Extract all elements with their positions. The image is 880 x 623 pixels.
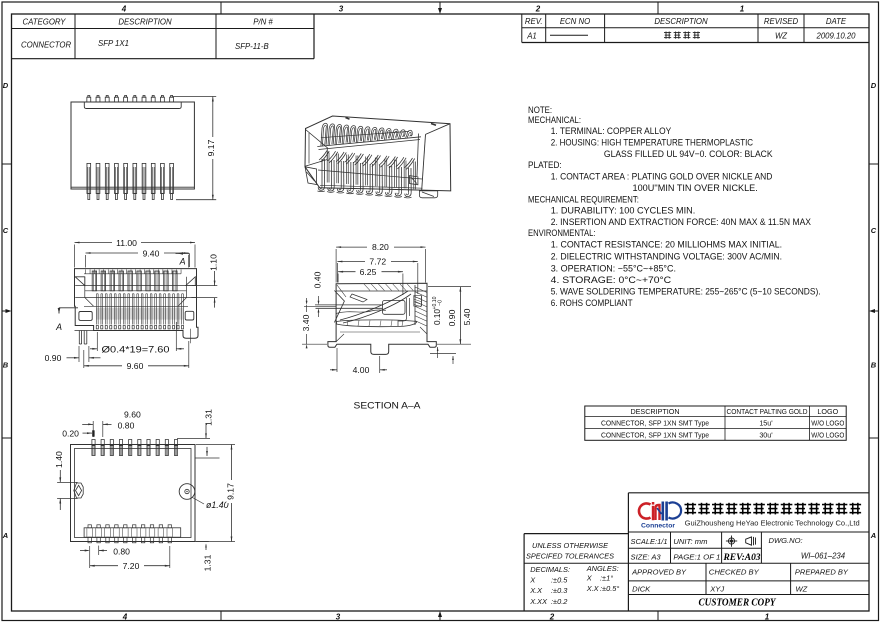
svg-text:0.90: 0.90: [447, 309, 457, 326]
dimension 1.10: [192, 285, 217, 287]
revision table: [521, 14, 523, 43]
bottom view comb band: [84, 528, 181, 537]
svg-text:0.10: 0.10: [433, 309, 442, 325]
svg-text:6. ROHS COMPLIANT: 6. ROHS COMPLIANT: [551, 298, 633, 308]
svg-text:WZ: WZ: [775, 31, 787, 40]
isometric top face marks: [346, 118, 350, 120]
svg-text:8.20: 8.20: [372, 242, 389, 252]
bottom view top pins: [92, 440, 95, 446]
svg-text:W/O LOGO: W/O LOGO: [811, 431, 844, 440]
svg-text:ECN NO: ECN NO: [560, 17, 590, 26]
svg-text:2: 2: [535, 4, 541, 13]
svg-text:MECHANICAL REQUIREMENT:: MECHANICAL REQUIREMENT:: [528, 195, 639, 205]
svg-text:B: B: [871, 361, 877, 370]
section right hatch block: [414, 285, 416, 325]
category table: [12, 28, 315, 30]
svg-text:2: 2: [549, 613, 555, 622]
svg-text:2. HOUSING: HIGH TEMPERATURE T: 2. HOUSING: HIGH TEMPERATURE THERMOPLAST…: [551, 137, 754, 147]
svg-text:CUSTOMER COPY: CUSTOMER COPY: [699, 598, 777, 609]
dimension 3.40: [306, 298, 308, 301]
dimension 9.17 bottom view: [196, 444, 235, 446]
svg-text:SIZE: A3: SIZE: A3: [631, 553, 662, 562]
svg-text:100U''MIN TIN OVER NICKLE.: 100U''MIN TIN OVER NICKLE.: [633, 183, 758, 193]
svg-text:2009.10.20: 2009.10.20: [815, 31, 856, 40]
ecn dash: [550, 34, 588, 36]
top view right block: [185, 311, 194, 320]
top view lower smt pins shading: [96, 308, 183, 320]
svg-text:11.00: 11.00: [116, 238, 137, 248]
svg-text:A: A: [179, 257, 186, 267]
isometric mouth opening: [305, 130, 327, 167]
isometric right foot: [419, 191, 437, 198]
svg-text:0.20: 0.20: [62, 429, 79, 439]
svg-text:A: A: [2, 531, 8, 540]
isometric legs: [321, 159, 323, 186]
dimension 4.00: [336, 348, 338, 372]
svg-text:1. TERMINAL: COPPER ALLOY: 1. TERMINAL: COPPER ALLOY: [551, 126, 672, 136]
bottom view body: [71, 445, 196, 542]
isometric top front edge: [317, 137, 421, 147]
top view upper comb: [85, 269, 87, 273]
svg-text:W/O LOGO: W/O LOGO: [811, 419, 844, 428]
svg-text:3. OPERATION: −55°C~+85°C.: 3. OPERATION: −55°C~+85°C.: [551, 263, 676, 273]
svg-text::±0.5°: :±0.5°: [600, 584, 619, 593]
svg-text:CHECKED BY: CHECKED BY: [709, 568, 760, 577]
svg-text:0.80: 0.80: [118, 420, 135, 430]
svg-text:7.72: 7.72: [369, 257, 386, 267]
svg-text:A: A: [870, 531, 876, 540]
svg-text:9.60: 9.60: [124, 409, 141, 419]
title block frame: [627, 493, 629, 611]
svg-text:4: 4: [121, 4, 127, 13]
svg-text:SECTION A–A: SECTION A–A: [354, 399, 422, 410]
svg-text:Ø0.4*19=7.60: Ø0.4*19=7.60: [102, 344, 170, 354]
svg-text:1: 1: [765, 613, 770, 622]
svg-text:Connector: Connector: [641, 523, 675, 530]
svg-text:CONNECTOR: CONNECTOR: [21, 41, 71, 50]
svg-text:DWG.NO:: DWG.NO:: [769, 536, 803, 545]
section mouth: [334, 291, 344, 323]
dimension 7.72: [336, 263, 338, 283]
rev description CJK 新訂圓面: [664, 32, 671, 39]
dimension 7.20: [89, 546, 91, 568]
section bottom leaf: [337, 320, 417, 327]
svg-text:1: 1: [740, 4, 745, 13]
svg-text:0.90: 0.90: [45, 353, 62, 363]
svg-text:P/N #: P/N #: [253, 17, 273, 26]
svg-text:LOGO: LOGO: [817, 407, 838, 416]
section top hatch band: [336, 290, 427, 292]
dimension 0.80 bottom: [80, 550, 89, 552]
svg-text:4: 4: [122, 613, 128, 622]
svg-text:DECIMALS:: DECIMALS:: [530, 565, 570, 574]
svg-text:DESCRIPTION: DESCRIPTION: [654, 17, 708, 26]
dimension 9.17 front view: [173, 96, 216, 98]
svg-text:SPECIFED TOLERANCES: SPECIFED TOLERANCES: [526, 552, 614, 561]
svg-text:GuiZhousheng HeYao Electronic: GuiZhousheng HeYao Electronic Technology…: [685, 519, 860, 528]
dimension 0.80 top: [92, 421, 94, 437]
isometric lower face edge: [318, 170, 422, 179]
svg-text:4.00: 4.00: [353, 365, 370, 375]
dimension 9.60 top view: [83, 350, 85, 368]
svg-text:PREPARED BY: PREPARED BY: [795, 568, 849, 577]
svg-text:15u': 15u': [759, 419, 773, 428]
svg-text:CATEGORY: CATEGORY: [23, 17, 67, 26]
top view right foot centerline: [190, 329, 192, 344]
tolerance box: [523, 534, 525, 611]
svg-text:DICK: DICK: [632, 584, 651, 593]
svg-text:XYJ: XYJ: [709, 584, 724, 593]
svg-text:GLASS FILLED UL 94V−0. COLOR:: GLASS FILLED UL 94V−0. COLOR: BLACK: [604, 149, 774, 159]
svg-text::±0.5: :±0.5: [551, 575, 568, 584]
svg-text:3: 3: [336, 613, 341, 622]
svg-text:SCALE:1/1: SCALE:1/1: [631, 537, 668, 546]
svg-text:7.20: 7.20: [123, 561, 140, 571]
svg-text:REV.: REV.: [525, 17, 543, 26]
svg-text:X.X: X.X: [586, 584, 600, 593]
dimension 1.31 bottom right: [172, 541, 209, 543]
svg-text:B: B: [3, 361, 9, 370]
svg-text:DESCRIPTION: DESCRIPTION: [630, 407, 679, 416]
svg-text:9.17: 9.17: [206, 139, 216, 156]
svg-text:CONNECTOR, SFP 1XN SMT Type: CONNECTOR, SFP 1XN SMT Type: [601, 419, 709, 428]
svg-text:0.40: 0.40: [312, 271, 322, 288]
svg-text:WZ: WZ: [796, 584, 808, 593]
svg-text::±0.2: :±0.2: [551, 597, 567, 606]
svg-text:DATE: DATE: [826, 17, 847, 26]
dimension 6.25: [337, 274, 339, 283]
svg-text:−0: −0: [438, 300, 444, 306]
section spring contact curves: [340, 291, 408, 320]
svg-text:DESCRIPTION: DESCRIPTION: [118, 17, 172, 26]
zone tick marks: [220, 2, 222, 14]
isometric side latch hole: [410, 176, 418, 185]
isometric right face edges: [426, 124, 451, 135]
svg-text:ENVIRONMENTAL:: ENVIRONMENTAL:: [528, 228, 596, 238]
dimension 11.00: [74, 245, 76, 268]
svg-text:1. DURABILITY: 100 CYCLES MIN.: 1. DURABILITY: 100 CYCLES MIN.: [551, 206, 696, 216]
svg-text:X.XX: X.XX: [529, 597, 548, 606]
svg-text:PAGE:1 OF 1: PAGE:1 OF 1: [673, 553, 720, 562]
company logo mark: [639, 502, 681, 521]
svg-text:9.60: 9.60: [127, 361, 144, 371]
svg-text:ANGLES:: ANGLES:: [586, 564, 619, 573]
svg-text:SFP-11-B: SFP-11-B: [235, 42, 269, 51]
dimension diameter 1.40: [193, 498, 205, 505]
svg-text:0.80: 0.80: [113, 546, 130, 556]
top view big pins row: [92, 271, 96, 291]
section contact blade: [315, 304, 383, 306]
top view chamfer corners: [75, 277, 85, 286]
svg-text:9.17: 9.17: [225, 483, 235, 500]
bottom view circle hole: [179, 484, 195, 500]
top view body outline: [75, 269, 199, 339]
svg-text:2. DIELECTRIC WITHSTANDING VOL: 2. DIELECTRIC WITHSTANDING VOLTAGE: 300V…: [551, 252, 782, 262]
section arrow A left: [59, 307, 78, 309]
dimension 1.31 top right: [177, 437, 210, 439]
svg-text:D: D: [3, 81, 9, 90]
plating spec table: [585, 406, 846, 440]
svg-text:UNLESS OTHERWISE: UNLESS OTHERWISE: [532, 541, 609, 550]
svg-text:1. CONTACT RESISTANCE: 20 MILL: 1. CONTACT RESISTANCE: 20 MILLIOHMS MAX …: [551, 240, 782, 250]
svg-text:A: A: [55, 322, 62, 332]
isometric back row legs: [326, 153, 328, 183]
svg-text:C: C: [871, 226, 877, 235]
isometric left foot: [305, 167, 317, 185]
dimension 9.40: [85, 255, 87, 268]
svg-text:5. WAVE SOLDERING TEMPERATURE:: 5. WAVE SOLDERING TEMPERATURE: 255~265°C…: [551, 287, 821, 297]
dimension 0.4x19: [96, 332, 98, 351]
svg-text:3: 3: [339, 4, 344, 13]
svg-text:X.X: X.X: [529, 586, 543, 595]
top view left legs: [78, 331, 80, 345]
svg-text::±0.3: :±0.3: [551, 586, 568, 595]
svg-text:3.40: 3.40: [301, 314, 311, 331]
bottom view hex hole: [74, 483, 83, 498]
svg-text:1.31: 1.31: [202, 554, 212, 571]
svg-text:REV:A03: REV:A03: [722, 552, 761, 562]
isometric view outline: [305, 116, 451, 191]
svg-text:CONNECTOR, SFP 1XN SMT Type: CONNECTOR, SFP 1XN SMT Type: [601, 431, 709, 440]
isometric top contact fingers: [321, 123, 328, 146]
svg-text:6.25: 6.25: [360, 267, 377, 277]
svg-text:9.40: 9.40: [143, 248, 160, 258]
isometric bottom rim: [320, 185, 423, 188]
svg-text:CONTACT PALTING GOLD: CONTACT PALTING GOLD: [727, 407, 808, 416]
svg-text:APPROVED BY: APPROVED BY: [631, 568, 687, 577]
section contact housing: [383, 301, 406, 315]
svg-text:1.10: 1.10: [208, 254, 218, 271]
section body outline: [328, 283, 436, 354]
projection symbols: [726, 536, 756, 547]
svg-text:C: C: [3, 226, 9, 235]
dimension 5.40: [428, 286, 471, 288]
svg-text:1.31: 1.31: [203, 409, 213, 426]
svg-text:UNIT: mm: UNIT: mm: [673, 537, 707, 546]
svg-text::±1°: :±1°: [600, 573, 613, 582]
isometric mid beams: [319, 151, 327, 161]
svg-text:30u': 30u': [759, 431, 773, 440]
front view top pins: [87, 97, 91, 102]
section inner bottom lines: [340, 331, 420, 333]
svg-text:SFP 1X1: SFP 1X1: [98, 39, 129, 48]
svg-text:WI–061–234: WI–061–234: [801, 552, 846, 561]
svg-text:ø1.40: ø1.40: [206, 500, 229, 510]
section arrow A top: [176, 252, 190, 254]
svg-text:1. CONTACT AREA : PLATING GOLD: 1. CONTACT AREA : PLATING GOLD OVER NICK…: [551, 171, 773, 181]
top view mid lines: [75, 285, 196, 287]
isometric back wall edge: [321, 131, 409, 137]
svg-text:5.40: 5.40: [462, 308, 472, 325]
svg-text:A1: A1: [526, 31, 537, 40]
svg-text:PLATED:: PLATED:: [528, 160, 562, 170]
centering arrows: [438, 8, 442, 14]
svg-text:D: D: [871, 81, 877, 90]
company name CJK 贵州省合曜电子科技有限公司: [685, 503, 697, 515]
top view left block: [79, 312, 92, 321]
svg-text:REVISED: REVISED: [764, 17, 799, 26]
svg-text:NOTE:: NOTE:: [528, 105, 552, 115]
svg-text:2. INSERTION AND EXTRACTION FO: 2. INSERTION AND EXTRACTION FORCE: 40N M…: [551, 217, 811, 227]
svg-text:MECHANICAL:: MECHANICAL:: [528, 115, 581, 125]
dimension 8.20: [335, 249, 337, 283]
top view lower smt pins: [95, 294, 97, 325]
svg-text:4. STORAGE: 0°C~+70°C: 4. STORAGE: 0°C~+70°C: [551, 275, 672, 285]
svg-text:1.40: 1.40: [54, 451, 64, 468]
front view body: [71, 102, 194, 189]
front view bottom pins: [87, 163, 91, 193]
